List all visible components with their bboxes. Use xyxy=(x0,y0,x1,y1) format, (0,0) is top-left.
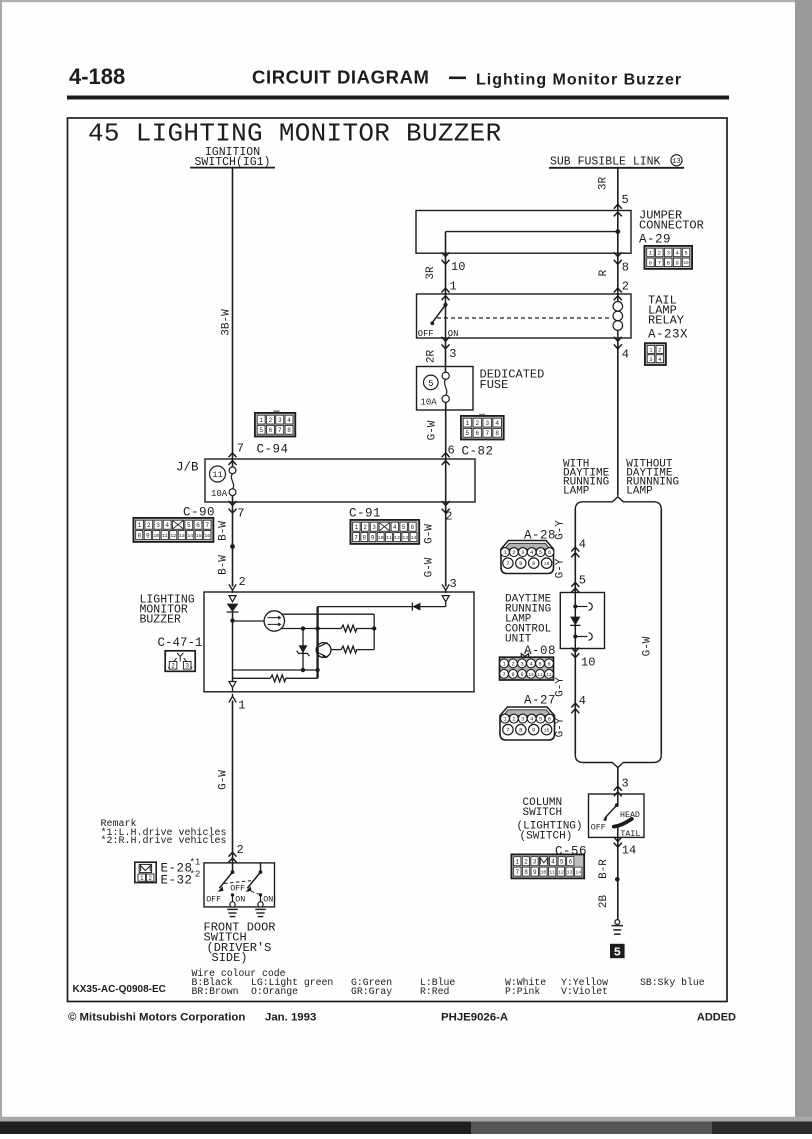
connector chevrons relay entry pin 2 xyxy=(614,288,622,292)
svg-text:G-Y: G-Y xyxy=(555,717,567,737)
svg-text:10: 10 xyxy=(541,869,547,875)
DRL internal upper tap xyxy=(573,604,577,608)
daytime running lamp control unit box xyxy=(560,593,604,649)
diagram frame xyxy=(68,118,728,1002)
svg-text:4: 4 xyxy=(551,858,555,865)
junction dot buzzer tap xyxy=(230,618,234,622)
female terminal at pin 3 inside xyxy=(442,596,449,602)
wire W2 relay to dedicated fuse (2R) xyxy=(445,338,447,372)
wire bottom bus of buzzer xyxy=(233,669,318,671)
DRL internal diode D3 xyxy=(570,617,580,626)
svg-text:GR:Gray: GR:Gray xyxy=(351,986,392,997)
front door switch right blade xyxy=(247,872,260,888)
svg-text:R: R xyxy=(598,269,610,276)
svg-text:C-94: C-94 xyxy=(257,443,289,457)
svg-text:10A: 10A xyxy=(211,489,228,499)
svg-text:C-47-1: C-47-1 xyxy=(158,636,203,650)
svg-text:8: 8 xyxy=(524,869,528,876)
transistor Q1 xyxy=(316,643,331,658)
relay switch wire stub xyxy=(445,294,447,338)
page edge shading right bar xyxy=(795,0,812,1122)
svg-text:4: 4 xyxy=(165,522,169,529)
connector chevrons column switch entry xyxy=(614,786,622,790)
connector chevrons jumper exit pin 8 xyxy=(614,252,622,256)
svg-text:16: 16 xyxy=(204,533,210,539)
svg-text:3: 3 xyxy=(156,522,160,529)
svg-text:CIRCUIT DIAGRAM: CIRCUIT DIAGRAM xyxy=(252,67,430,88)
resistor R1 xyxy=(341,625,357,632)
svg-text:ON: ON xyxy=(263,896,273,905)
connector chevrons DRL unit entry xyxy=(571,582,579,586)
svg-text:8: 8 xyxy=(622,261,629,275)
svg-text:6: 6 xyxy=(649,259,652,266)
svg-text:7: 7 xyxy=(237,507,244,521)
wire right vertical to resistors xyxy=(373,614,375,649)
front door switch dashed mechanical link xyxy=(224,881,251,884)
svg-text:3: 3 xyxy=(520,661,523,667)
svg-text:ON: ON xyxy=(235,896,245,905)
svg-text:5: 5 xyxy=(539,549,542,556)
svg-text:12: 12 xyxy=(170,533,176,539)
junction dot in jumper connector xyxy=(615,229,620,234)
wire W1 C-90 to buzzer (B-W) xyxy=(232,502,234,587)
svg-text:P:Pink: P:Pink xyxy=(505,986,540,997)
svg-text:4: 4 xyxy=(393,524,397,531)
svg-text:1: 1 xyxy=(138,522,142,529)
svg-text:3: 3 xyxy=(521,549,524,556)
svg-text:5: 5 xyxy=(622,193,629,207)
svg-text:Jan. 1993: Jan. 1993 xyxy=(265,1012,316,1024)
svg-text:3: 3 xyxy=(649,356,652,363)
svg-text:V:Violet: V:Violet xyxy=(561,986,608,997)
wire W1 inside J/B lower xyxy=(232,496,234,502)
wire W3 relay to split (long) xyxy=(617,338,619,496)
connector chevrons relay exit pin 3 xyxy=(442,337,450,341)
svg-text:3: 3 xyxy=(521,716,524,723)
svg-text:2B: 2B xyxy=(598,895,610,909)
svg-text:3: 3 xyxy=(450,577,457,591)
svg-text:8: 8 xyxy=(137,532,141,539)
wire W3 column switch to ground (B-R) xyxy=(617,837,619,919)
svg-text:1: 1 xyxy=(502,661,505,667)
connector A-23X pin grid xyxy=(645,343,666,365)
svg-text:G-Y: G-Y xyxy=(555,677,567,697)
svg-text:8: 8 xyxy=(519,560,522,567)
svg-text:2: 2 xyxy=(658,346,661,353)
svg-text:45 LIGHTING MONITOR BUZZER: 45 LIGHTING MONITOR BUZZER xyxy=(88,119,501,149)
ground below front door switch right xyxy=(255,908,266,910)
ground terminal circle xyxy=(615,920,620,925)
svg-text:4-188: 4-188 xyxy=(69,64,125,89)
connector A-08 grid xyxy=(521,654,528,658)
svg-text:2R: 2R xyxy=(426,350,438,364)
merge bracket bottom xyxy=(575,755,661,768)
svg-text:5: 5 xyxy=(539,716,542,723)
svg-text:*2: *2 xyxy=(190,870,201,880)
svg-text:2: 2 xyxy=(148,875,152,882)
fuse 11 circled label xyxy=(210,466,226,482)
resistor R2 xyxy=(341,646,357,653)
svg-text:A-27: A-27 xyxy=(524,694,556,708)
svg-text:7: 7 xyxy=(516,869,520,876)
svg-text:G-W: G-W xyxy=(427,420,439,440)
svg-text:2: 2 xyxy=(171,662,175,669)
svg-text:C-91: C-91 xyxy=(349,507,381,521)
svg-text:11: 11 xyxy=(162,533,168,539)
svg-text:LAMP: LAMP xyxy=(563,486,590,498)
connector C-56 pin grid xyxy=(511,854,584,878)
svg-text:J/B: J/B xyxy=(176,461,199,475)
svg-text:15: 15 xyxy=(196,533,202,539)
svg-text:2: 2 xyxy=(363,524,367,531)
svg-text:(SWITCH): (SWITCH) xyxy=(520,830,573,842)
svg-text:11: 11 xyxy=(212,470,222,480)
resistor R3 output line xyxy=(233,677,271,679)
wire W3 sub fusible link to jumper connector (3R) xyxy=(617,169,619,211)
svg-text:7: 7 xyxy=(485,430,489,437)
column switch feed wire xyxy=(617,794,619,805)
svg-text:9: 9 xyxy=(675,259,678,266)
connector chevrons jumper exit pin 10 xyxy=(442,252,450,256)
column switch box xyxy=(589,794,645,837)
svg-text:6: 6 xyxy=(548,716,551,723)
ground below front door switch left xyxy=(227,908,238,910)
connector E-28/E-32 icon xyxy=(135,862,156,882)
dedicated fuse box xyxy=(417,367,474,411)
wire W2 inside J/B xyxy=(445,459,447,502)
svg-text:9: 9 xyxy=(146,532,150,539)
svg-text:Lighting Monitor Buzzer: Lighting Monitor Buzzer xyxy=(476,72,682,89)
svg-text:10: 10 xyxy=(581,656,595,670)
junction splice on ground wire xyxy=(615,877,620,882)
svg-text:6: 6 xyxy=(568,858,572,865)
svg-text:14: 14 xyxy=(411,535,417,541)
relay mechanical dashed link xyxy=(437,317,611,319)
svg-text:7: 7 xyxy=(278,427,282,434)
svg-text:5: 5 xyxy=(560,858,564,865)
svg-text:7: 7 xyxy=(237,442,244,456)
connector chevrons column switch exit pin 14 xyxy=(614,837,622,841)
front door switch left feed xyxy=(232,863,234,872)
svg-text:9: 9 xyxy=(533,869,537,876)
svg-text:13: 13 xyxy=(179,533,185,539)
svg-text:10: 10 xyxy=(451,260,465,274)
svg-text:2: 2 xyxy=(512,716,515,723)
junction dots on R1 line xyxy=(301,626,305,630)
svg-text:7: 7 xyxy=(354,534,358,541)
female terminal at pin 1 inside xyxy=(229,682,236,688)
svg-text:5: 5 xyxy=(402,524,406,531)
svg-text:6: 6 xyxy=(476,430,480,437)
svg-text:B-W: B-W xyxy=(218,521,230,541)
svg-text:10: 10 xyxy=(153,533,159,539)
svg-text:FUSE: FUSE xyxy=(480,378,509,392)
svg-text:2: 2 xyxy=(622,280,629,294)
svg-text:7: 7 xyxy=(658,259,661,266)
svg-text:1: 1 xyxy=(515,858,519,865)
svg-text:7: 7 xyxy=(502,672,505,678)
connector A-28 oval xyxy=(501,541,554,574)
svg-text:SUB FUSIBLE LINK: SUB FUSIBLE LINK xyxy=(550,156,661,169)
svg-text:14: 14 xyxy=(187,533,193,539)
svg-text:OFF: OFF xyxy=(418,329,434,339)
svg-text:SIDE): SIDE) xyxy=(212,951,248,965)
svg-text:BR:Brown: BR:Brown xyxy=(192,986,239,997)
svg-text:2: 2 xyxy=(147,522,151,529)
wire W3 jumper to relay (R) xyxy=(617,253,619,294)
junction dots bottom bus xyxy=(301,668,305,672)
svg-text:9: 9 xyxy=(532,727,535,734)
fuse circled 5 xyxy=(424,375,439,390)
svg-text:10: 10 xyxy=(544,561,550,567)
svg-text:8: 8 xyxy=(495,430,499,437)
svg-text:10: 10 xyxy=(544,728,550,734)
front door switch right feed xyxy=(260,863,262,872)
svg-text:6: 6 xyxy=(411,524,415,531)
svg-text:11: 11 xyxy=(537,673,543,678)
wire W1 buzzer to front door switch (G-W) xyxy=(232,701,234,863)
svg-text:7: 7 xyxy=(205,522,209,529)
relay switch pivot xyxy=(443,303,447,307)
svg-text:6: 6 xyxy=(196,522,200,529)
svg-text:G-W: G-W xyxy=(424,524,436,544)
svg-text:2: 2 xyxy=(269,417,273,424)
svg-text:3R: 3R xyxy=(425,266,437,280)
fuse 11 element on wire W1 xyxy=(232,459,234,467)
connector chevrons front door switch entry xyxy=(229,852,237,856)
front door switch box xyxy=(204,863,275,907)
svg-text:2: 2 xyxy=(658,249,661,256)
svg-text:6: 6 xyxy=(269,427,273,434)
male terminal fork at buzzer pin 2 xyxy=(229,584,236,590)
connector chevrons C-94 into J/B xyxy=(229,453,237,457)
svg-text:3: 3 xyxy=(622,777,629,791)
male terminal fork at buzzer pin 1 output xyxy=(229,696,236,702)
DRL internal lower tap xyxy=(573,634,577,638)
page edge shading top xyxy=(0,0,812,2)
svg-text:11: 11 xyxy=(549,869,555,875)
wire W3b split bypass (G-W) xyxy=(660,510,662,755)
svg-text:2: 2 xyxy=(237,843,244,857)
jumper internal branch wire xyxy=(446,231,618,233)
svg-text:G-W: G-W xyxy=(218,770,230,790)
jumper connector box xyxy=(416,211,631,254)
connector C-82 pin grid xyxy=(479,414,485,417)
svg-text:14: 14 xyxy=(622,844,636,858)
junction splice on W1 xyxy=(230,544,235,549)
svg-text:4: 4 xyxy=(579,694,586,708)
svg-text:12: 12 xyxy=(394,535,400,541)
svg-text:5: 5 xyxy=(466,430,470,437)
connector chevrons DRL unit exit pin 10 xyxy=(571,648,579,652)
connector chevrons C-82 into J/B xyxy=(442,453,450,457)
header dash xyxy=(449,77,466,80)
wire W1 ignition switch to J/B (3B-W) xyxy=(232,168,234,459)
svg-text:7: 7 xyxy=(506,560,509,567)
svg-text:3: 3 xyxy=(278,417,282,424)
buzzer element B1 xyxy=(233,620,265,622)
svg-text:© Mitsubishi Motors Corporatio: © Mitsubishi Motors Corporation xyxy=(68,1012,245,1024)
front door switch left ON contact xyxy=(231,893,234,896)
column switch output wire xyxy=(617,827,619,838)
wire pin3 top line with diode xyxy=(318,606,413,608)
connector A-29 pin grid xyxy=(644,246,692,269)
diode D2 xyxy=(412,603,420,611)
svg-text:1: 1 xyxy=(355,524,359,531)
svg-text:14: 14 xyxy=(575,869,581,875)
connector A-27 oval xyxy=(500,707,555,740)
svg-text:13: 13 xyxy=(402,535,408,541)
connector chevrons A-28 xyxy=(571,547,579,551)
svg-text:3: 3 xyxy=(449,347,456,361)
svg-text:4: 4 xyxy=(579,538,586,552)
svg-text:4: 4 xyxy=(529,661,532,667)
svg-text:7: 7 xyxy=(506,727,509,734)
svg-text:8: 8 xyxy=(362,534,366,541)
svg-text:10: 10 xyxy=(683,260,689,266)
svg-text:3: 3 xyxy=(372,524,376,531)
page edge shading left xyxy=(0,0,2,1120)
dedicated fuse element xyxy=(442,372,449,379)
svg-text:5: 5 xyxy=(538,661,541,667)
connector C-94 pin grid xyxy=(274,410,280,413)
svg-text:6: 6 xyxy=(547,661,550,667)
zener diode ZD1 xyxy=(302,629,304,671)
svg-text:5: 5 xyxy=(428,379,433,389)
svg-text:1: 1 xyxy=(238,699,245,713)
svg-text:1: 1 xyxy=(450,280,457,294)
svg-text:OFF: OFF xyxy=(206,896,221,905)
svg-text:3: 3 xyxy=(533,858,537,865)
wire buzzer left vertical xyxy=(232,612,234,682)
svg-text:TAIL: TAIL xyxy=(620,830,640,839)
svg-text:OFF: OFF xyxy=(591,824,606,833)
wire W3a DRL unit to A-27 (G-Y) xyxy=(574,649,576,755)
split bracket top xyxy=(575,497,661,510)
tail lamp relay box xyxy=(417,294,632,338)
header rule xyxy=(67,96,729,100)
page bottom gray strip xyxy=(0,1117,812,1122)
wire W2 jumper connector to tail lamp relay (3R) xyxy=(445,232,447,294)
svg-text:G-Y: G-Y xyxy=(555,558,567,578)
svg-text:5: 5 xyxy=(684,249,687,256)
svg-text:8: 8 xyxy=(667,259,670,266)
svg-text:OFF: OFF xyxy=(230,885,245,894)
wire W3 merge to column switch xyxy=(617,767,619,795)
svg-text:KX35-AC-Q0908-EC: KX35-AC-Q0908-EC xyxy=(73,984,166,995)
svg-text:12: 12 xyxy=(546,673,552,678)
svg-text:5: 5 xyxy=(579,574,586,588)
svg-text:R:Red: R:Red xyxy=(420,986,450,997)
diode D1 input xyxy=(227,604,239,612)
svg-text:2: 2 xyxy=(511,661,514,667)
connector chevrons jumper entry pin 5 xyxy=(614,204,622,208)
svg-text:A-29: A-29 xyxy=(639,233,671,247)
svg-text:9: 9 xyxy=(371,534,375,541)
connector C-91 pin grid xyxy=(350,520,419,544)
connector chevrons A-27 xyxy=(571,703,579,707)
connector chevrons relay entry pin 1 xyxy=(442,288,450,292)
relay coil xyxy=(617,294,619,302)
column switch lever arc xyxy=(614,819,632,827)
svg-text:13: 13 xyxy=(672,158,680,166)
wire W3a split to A-28 (G-Y) xyxy=(574,510,576,593)
svg-text:5: 5 xyxy=(187,522,191,529)
svg-text:ADDED: ADDED xyxy=(697,1012,736,1024)
svg-text:8: 8 xyxy=(287,427,291,434)
svg-text:2: 2 xyxy=(476,420,480,427)
wire W2 J/B to buzzer xyxy=(445,502,447,587)
svg-text:10: 10 xyxy=(378,535,384,541)
svg-text:*1: *1 xyxy=(190,858,201,868)
svg-text:6: 6 xyxy=(548,549,551,556)
svg-text:2: 2 xyxy=(512,549,515,556)
DRL unit internal wire xyxy=(574,593,576,649)
resistor R3 xyxy=(270,675,286,682)
svg-text:5: 5 xyxy=(259,427,263,434)
svg-text:BUZZER: BUZZER xyxy=(140,614,182,627)
svg-text:3B-W: 3B-W xyxy=(221,309,233,336)
svg-text:13: 13 xyxy=(567,869,573,875)
front door switch right ON contact xyxy=(259,893,262,896)
svg-text:8: 8 xyxy=(519,727,522,734)
wire buzzer top to right network xyxy=(282,613,374,615)
wire buzzer lower output line xyxy=(281,628,341,630)
svg-text:1: 1 xyxy=(259,417,263,424)
svg-text:9: 9 xyxy=(532,560,535,567)
buzzer unit box xyxy=(204,592,474,692)
svg-text:A-23X: A-23X xyxy=(648,328,688,342)
svg-text:PHJE9026-A: PHJE9026-A xyxy=(441,1012,508,1024)
svg-text:9: 9 xyxy=(520,672,523,678)
front door switch left blade xyxy=(219,872,232,888)
svg-text:12: 12 xyxy=(558,869,564,875)
female terminal at pin 2 inside xyxy=(229,596,236,602)
wire W2 fuse to J/B (G-W) xyxy=(445,402,447,459)
connector C-90 pin grid xyxy=(133,518,213,542)
svg-text:3: 3 xyxy=(185,662,189,669)
svg-text:SB:Sky blue: SB:Sky blue xyxy=(640,977,705,988)
svg-text:B-W: B-W xyxy=(218,555,230,575)
svg-text:B-R: B-R xyxy=(598,859,610,879)
svg-text:RELAY: RELAY xyxy=(648,314,684,328)
male terminal fork at buzzer pin 3 xyxy=(442,584,449,590)
svg-text:1: 1 xyxy=(140,875,144,882)
resistor R2 line xyxy=(331,649,341,651)
svg-text:10A: 10A xyxy=(421,398,438,408)
svg-text:2: 2 xyxy=(239,575,246,589)
svg-text:SWITCH: SWITCH xyxy=(523,807,563,819)
svg-text:G-W: G-W xyxy=(642,636,654,656)
svg-text:3R: 3R xyxy=(598,177,610,191)
ground reference 5 black box xyxy=(610,944,625,958)
svg-text:3: 3 xyxy=(485,420,489,427)
svg-text:4: 4 xyxy=(495,420,499,427)
wire inside jumper connector right leg xyxy=(617,211,619,254)
svg-text:E-32: E-32 xyxy=(161,873,193,887)
svg-text:5: 5 xyxy=(614,946,621,960)
junction block J/B box xyxy=(205,459,475,502)
connector chevrons relay exit pin 4 xyxy=(614,337,622,341)
svg-text:CONNECTOR: CONNECTOR xyxy=(639,219,704,233)
svg-text:4: 4 xyxy=(287,417,291,424)
svg-text:10: 10 xyxy=(528,673,534,678)
svg-text:11: 11 xyxy=(386,535,392,541)
svg-text:G-Y: G-Y xyxy=(555,520,567,540)
svg-text:G-W: G-W xyxy=(424,557,436,577)
svg-text:*2:R.H.drive vehicles: *2:R.H.drive vehicles xyxy=(101,835,227,847)
connector chevrons J/B exit to C-91 xyxy=(442,501,450,505)
